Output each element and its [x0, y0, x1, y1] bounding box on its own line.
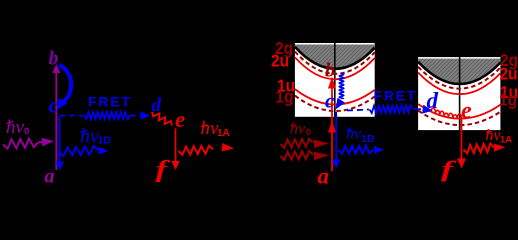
acceptor well boundary curve [418, 62, 500, 84]
donor potential well background [295, 43, 375, 117]
relaxation arc b-c [59, 65, 71, 103]
photon arrow hv0 lower donor [281, 151, 314, 160]
svg-text:1A: 1A [217, 128, 230, 139]
svg-text:1g: 1g [499, 90, 517, 110]
hv1A label acceptor [486, 127, 513, 146]
svg-text:hν: hν [80, 126, 99, 148]
relaxation coil b-c donor [339, 74, 343, 100]
level 1g dashed curve acceptor [418, 111, 500, 126]
svg-text:a: a [45, 166, 55, 188]
photon arrow hv1A acceptor [464, 144, 495, 154]
acceptor potential well background [418, 57, 500, 130]
level 2u solid curve acceptor [418, 73, 500, 95]
svg-text:c: c [49, 93, 59, 118]
level 1u solid curve donor [295, 89, 375, 104]
svg-text:e: e [461, 98, 472, 124]
svg-text:b: b [325, 60, 335, 82]
svg-text:hν: hν [6, 117, 25, 138]
FRET photon squiggle [84, 112, 130, 119]
svg-text:0: 0 [306, 127, 311, 137]
FRET dashed line c-d [60, 115, 84, 117]
svg-text:hν: hν [346, 126, 362, 143]
svg-text:1g: 1g [276, 87, 294, 107]
donor well boundary curve [295, 47, 375, 69]
svg-text:1D: 1D [98, 135, 112, 147]
level 2g dashed curve acceptor [418, 67, 500, 89]
photon arrow hv1A [179, 146, 214, 155]
photon arrow hv1D donor [339, 146, 374, 154]
hv0 label donor [290, 121, 311, 138]
FRET dashed line donor-acceptor [347, 110, 369, 111]
level 2u solid curve donor [295, 57, 375, 79]
wire blue emission line c-down [59, 116, 61, 163]
acceptor continuum hatched region [418, 59, 500, 84]
photon arrow hv0 [3, 139, 38, 149]
wire blue emission line c-down donor [335, 112, 337, 161]
hv1A label [201, 118, 230, 139]
arrowhead FRET at d [141, 111, 151, 120]
svg-text:hν: hν [290, 121, 306, 138]
svg-text:0: 0 [24, 126, 29, 137]
donor continuum hatched region [295, 45, 375, 69]
svg-text:1A: 1A [500, 135, 512, 146]
relaxation zigzag d-e [152, 112, 172, 126]
acceptor internuclear axis line [459, 57, 461, 130]
level 2g dashed curve donor [295, 52, 375, 74]
level 1g dashed curve donor [295, 96, 375, 111]
photon arrow hv0 upper donor [281, 139, 314, 148]
arrowhead purple at b [52, 64, 60, 73]
wire red pump line a-b donor [331, 80, 333, 171]
hv0 label [6, 117, 29, 138]
wire red emission line e-f acceptor [461, 119, 463, 161]
svg-text:e: e [175, 107, 185, 132]
hv1D label donor [346, 126, 375, 146]
svg-text:2u: 2u [271, 51, 289, 71]
level 1u solid curve acceptor [418, 104, 500, 119]
svg-text:c: c [325, 89, 335, 113]
hv1D label [80, 126, 111, 148]
svg-text:a: a [318, 164, 330, 189]
donor internuclear axis line [334, 43, 336, 117]
svg-text:1D: 1D [361, 133, 375, 145]
svg-text:b: b [49, 48, 59, 70]
svg-text:2u: 2u [500, 64, 518, 84]
wire purple pump line a-b [55, 68, 57, 170]
photon arrow hv1D [59, 146, 98, 156]
wire red emission line e-f [175, 129, 177, 165]
svg-text:FRET: FRET [88, 94, 132, 110]
relaxation coil d-e acceptor [431, 108, 462, 119]
arrowhead FRET at d acceptor [422, 105, 433, 114]
svg-text:FRET: FRET [374, 88, 418, 104]
